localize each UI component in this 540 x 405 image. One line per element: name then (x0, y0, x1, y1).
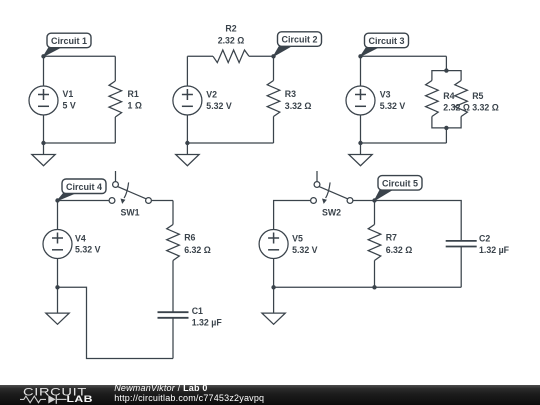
ground circuit 4 (57, 287, 59, 313)
voltage source V1 (29, 86, 58, 115)
ground circuit 1 (43, 143, 45, 155)
ground circuit 5 (273, 287, 275, 313)
wire left-top circuit 3 (360, 56, 362, 86)
wire to R5 top (446, 71, 461, 81)
wire left-top circuit 2 (186, 56, 188, 86)
wire from R4 bottom (432, 117, 447, 128)
label flag Circuit 4 (58, 192, 80, 201)
wire switch to node circuit 5 (353, 200, 375, 202)
ground circuit 3 (360, 143, 362, 155)
node bottom-left circuit 2 (185, 141, 189, 145)
CircuitLab logo (0, 385, 110, 405)
svg-text:R2: R2 (225, 24, 236, 34)
wire from R5 bottom (446, 117, 461, 128)
wire left-bottom circuit 3 (360, 115, 362, 143)
wire top-right circuit 5 (375, 201, 462, 241)
wire bottom circuit 4 (58, 287, 174, 358)
node top circuit 5 (372, 198, 376, 202)
wire V4 top circuit 4 (57, 201, 59, 230)
wire top circuit 3 (361, 55, 447, 57)
svg-text:Circuit 4: Circuit 4 (66, 182, 102, 192)
wire R6 to C1 circuit 4 (172, 261, 174, 313)
wire V4 bottom circuit 4 (57, 259, 59, 288)
wire right-bottom circuit 2 (273, 117, 275, 144)
node circuit 2 (271, 54, 275, 58)
svg-text:5.32 V: 5.32 V (380, 101, 406, 111)
svg-text:1.32 µF: 1.32 µF (479, 245, 510, 255)
wire right-top circuit 1 (114, 56, 116, 81)
footer title (114, 384, 207, 393)
wire R7 bottom circuit 5 (374, 261, 376, 288)
svg-text:R1: R1 (128, 89, 139, 99)
voltage source V5 (259, 230, 288, 259)
svg-text:R5: R5 (472, 91, 483, 101)
node parallel-bottom circuit 3 (444, 126, 448, 130)
wire right-bottom circuit 1 (114, 117, 116, 143)
svg-text:6.32 Ω: 6.32 Ω (386, 245, 413, 255)
svg-text:R4: R4 (443, 91, 454, 101)
resistor R3 (267, 81, 280, 117)
node R7-bottom circuit 5 (372, 285, 376, 289)
wire to R4 top (432, 71, 447, 81)
svg-text:3.32 Ω: 3.32 Ω (285, 101, 312, 111)
wire bottom circuit 3 (361, 142, 447, 144)
resistor R2 (213, 50, 249, 63)
node top-left circuit 4 (55, 198, 59, 202)
wire C1 down circuit 4 (172, 318, 174, 359)
resistor R6 (167, 225, 180, 261)
node bottom-left circuit 5 (271, 285, 275, 289)
wire V5 top to switch circuit 5 (274, 201, 311, 230)
wire top circuit 1 (44, 55, 116, 57)
wire right-top circuit 3 (445, 56, 447, 70)
capacitor C1 (158, 312, 189, 318)
svg-text:SW1: SW1 (120, 208, 139, 218)
node top-left circuit 3 (358, 54, 362, 58)
label flag Circuit 2 (274, 44, 295, 56)
footer bar (0, 385, 540, 405)
svg-text:5 V: 5 V (63, 100, 76, 110)
wire right-top circuit 4 (172, 201, 174, 225)
label flag Circuit 3 (361, 46, 382, 57)
node top-left circuit 1 (41, 54, 45, 58)
wire bottom circuit 1 (44, 142, 116, 144)
svg-text:C1: C1 (192, 306, 203, 316)
svg-text:R6: R6 (184, 232, 195, 242)
svg-text:Circuit 5: Circuit 5 (382, 178, 418, 188)
wire right-bottom circuit 3 (445, 128, 447, 143)
node bottom-left circuit 4 (55, 285, 59, 289)
wire right-top circuit 2 (273, 56, 275, 80)
svg-text:V2: V2 (206, 90, 217, 100)
label flag Circuit 5 (375, 188, 396, 200)
wire node to switch circuit 4 (58, 200, 109, 202)
svg-text:Circuit 1: Circuit 1 (51, 36, 87, 46)
voltage source V2 (173, 86, 202, 115)
wire top-left circuit 2 (187, 55, 213, 57)
wire top-right circuit 2 (249, 55, 274, 57)
svg-text:Circuit 2: Circuit 2 (281, 35, 317, 45)
wire node to R7 circuit 5 (374, 201, 376, 225)
node parallel-top circuit 3 (444, 68, 448, 72)
switch SW1 (115, 171, 117, 182)
switch SW2 (316, 171, 318, 182)
svg-text:V3: V3 (380, 90, 391, 100)
svg-text:C2: C2 (479, 234, 490, 244)
resistor R4 (426, 81, 439, 117)
svg-text:5.32 V: 5.32 V (75, 245, 101, 255)
resistor R1 (109, 81, 122, 117)
wire V5 bottom circuit 5 (273, 259, 275, 288)
svg-text:V1: V1 (63, 89, 74, 99)
svg-text:R3: R3 (285, 89, 296, 99)
node bottom-left circuit 3 (358, 141, 362, 145)
resistor R7 (368, 225, 381, 261)
svg-text:LAB: LAB (67, 395, 93, 405)
wire C2 bottom circuit 5 (460, 247, 462, 288)
wire switch to corner circuit 4 (152, 200, 173, 202)
svg-text:1 Ω: 1 Ω (128, 100, 142, 110)
wire bottom circuit 2 (187, 142, 273, 144)
svg-text:5.32 V: 5.32 V (292, 245, 318, 255)
svg-text:2.32 Ω: 2.32 Ω (218, 36, 245, 46)
svg-text:5.32 V: 5.32 V (206, 101, 232, 111)
svg-text:V5: V5 (292, 234, 303, 244)
ground circuit 2 (186, 143, 188, 155)
wire left-top circuit 1 (43, 56, 45, 86)
label flag Circuit 1 (44, 46, 65, 57)
resistor R5 (455, 81, 468, 117)
node bottom-left circuit 1 (41, 141, 45, 145)
footer url (114, 394, 264, 403)
capacitor C2 (446, 241, 477, 247)
svg-text:R7: R7 (386, 232, 397, 242)
svg-text:1.32 µF: 1.32 µF (192, 317, 223, 327)
voltage source V4 (43, 230, 72, 259)
voltage source V3 (346, 86, 375, 115)
wire left-bottom circuit 1 (43, 115, 45, 143)
svg-text:SW2: SW2 (322, 208, 341, 218)
svg-text:V4: V4 (75, 233, 86, 243)
wire left-bottom circuit 2 (186, 115, 188, 143)
wire bottom circuit 5 (274, 286, 462, 288)
svg-text:Circuit 3: Circuit 3 (368, 36, 404, 46)
svg-text:3.32 Ω: 3.32 Ω (472, 103, 499, 113)
svg-text:6.32 Ω: 6.32 Ω (184, 245, 211, 255)
